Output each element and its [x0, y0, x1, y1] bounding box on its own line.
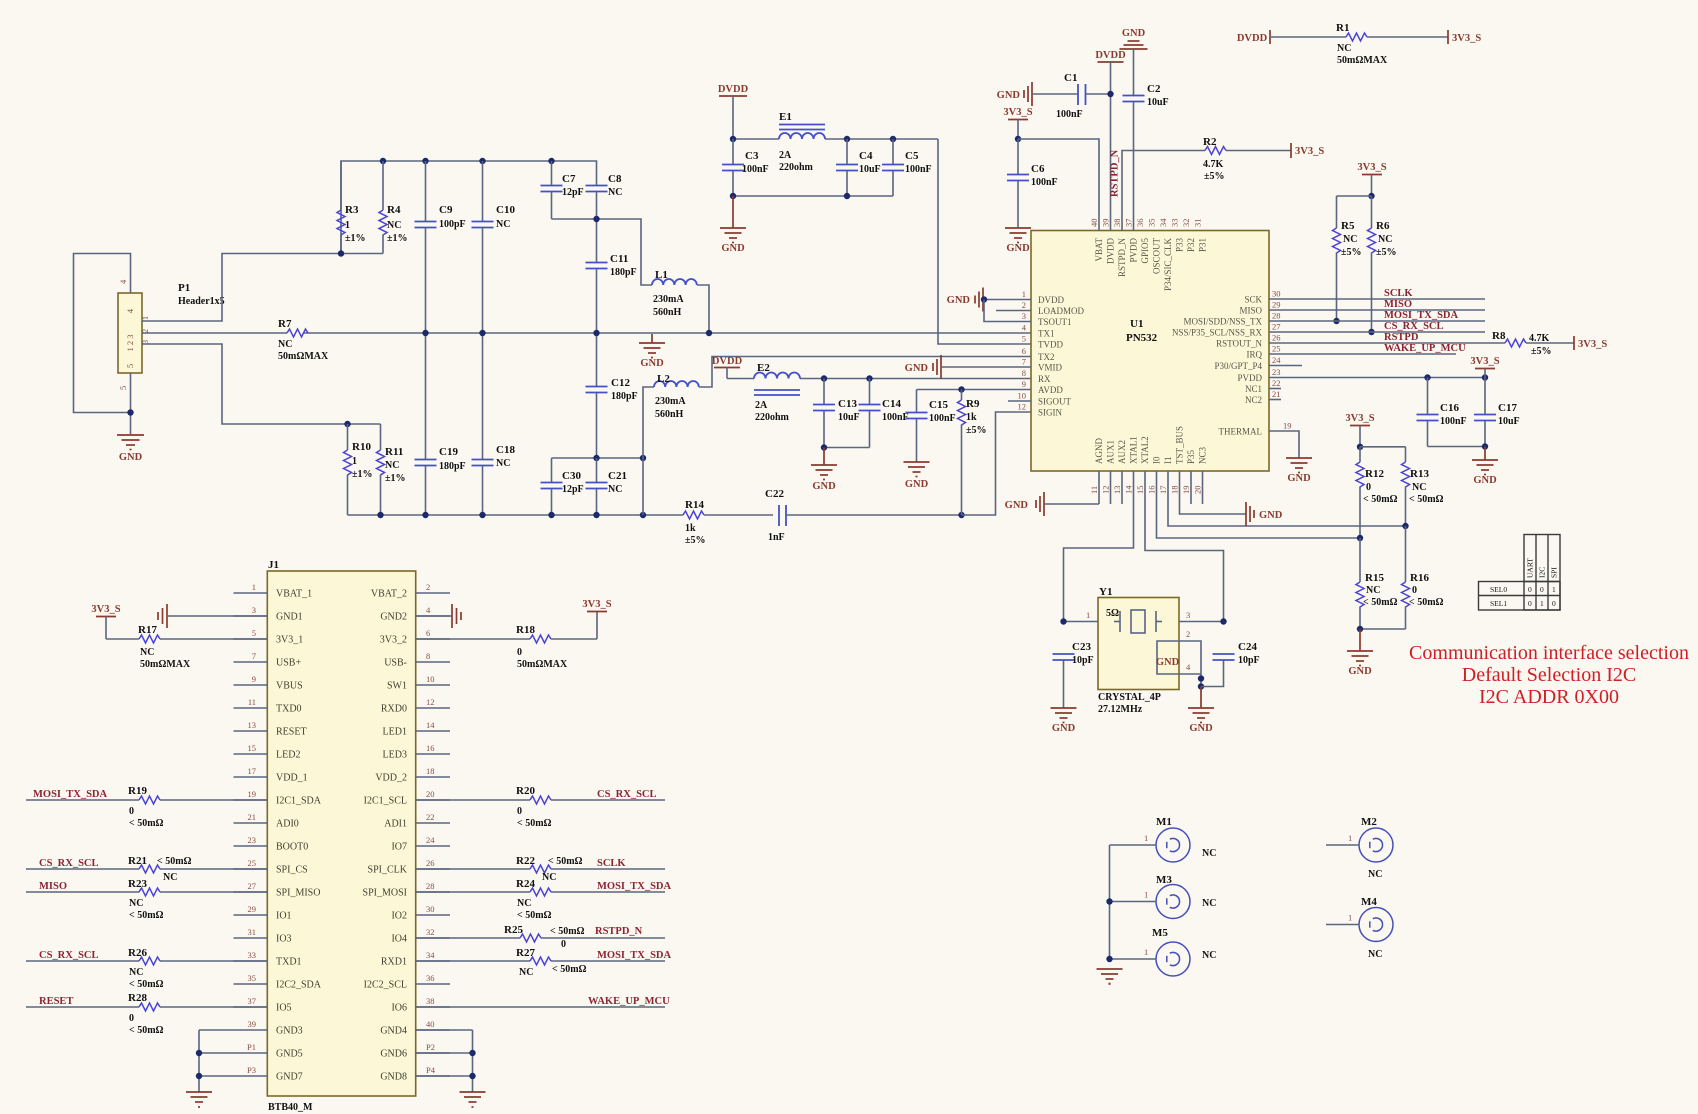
svg-text:13: 13	[1112, 486, 1122, 495]
svg-text:GPIO5: GPIO5	[1140, 238, 1150, 264]
svg-text:R6: R6	[1376, 220, 1390, 232]
mounting hole M4	[1326, 896, 1393, 960]
svg-text:RX: RX	[1038, 374, 1051, 384]
svg-text:±5%: ±5%	[685, 535, 706, 546]
capacitor C6	[1007, 139, 1058, 228]
svg-text:P30/GPT_P4: P30/GPT_P4	[1214, 361, 1262, 371]
svg-text:100pF: 100pF	[439, 219, 466, 230]
svg-text:560nH: 560nH	[653, 307, 682, 318]
svg-text:16: 16	[426, 743, 435, 753]
svg-text:12: 12	[426, 697, 435, 707]
svg-text:C24: C24	[1238, 641, 1257, 653]
svg-text:I2C ADDR 0X00: I2C ADDR 0X00	[1479, 686, 1619, 708]
net CS_RX_SCL left r33	[26, 950, 139, 961]
svg-text:C8: C8	[608, 173, 622, 185]
capacitor C9	[415, 161, 466, 459]
svg-text:GND: GND	[947, 295, 971, 306]
svg-text:PN532: PN532	[1126, 332, 1158, 344]
wire I1 row to R13 bottom	[1168, 471, 1409, 529]
resistor R17	[138, 624, 267, 670]
svg-text:MOSI_TX_SDA: MOSI_TX_SDA	[1384, 310, 1459, 321]
svg-text:50mΩMAX: 50mΩMAX	[1337, 55, 1388, 66]
resistor R8	[1492, 330, 1574, 357]
svg-text:SPI_MISO: SPI_MISO	[276, 888, 320, 899]
capacitor C4	[836, 139, 881, 196]
resistor R4	[379, 161, 408, 254]
svg-text:NC1: NC1	[1245, 384, 1262, 394]
svg-text:C12: C12	[611, 377, 630, 389]
resistor R18	[416, 624, 597, 670]
ground under Y1 pin4	[1188, 687, 1214, 735]
svg-text:39: 39	[248, 1019, 257, 1029]
svg-text:GND: GND	[1259, 510, 1283, 521]
svg-text:RESET: RESET	[39, 996, 73, 1007]
svg-text:C23: C23	[1072, 641, 1091, 653]
svg-text:L2: L2	[657, 373, 670, 385]
svg-text:15: 15	[248, 743, 257, 753]
svg-text:R3: R3	[345, 204, 359, 216]
svg-text:C3: C3	[745, 150, 759, 162]
svg-text:P1: P1	[178, 282, 190, 294]
svg-text:NC: NC	[1337, 43, 1351, 54]
U1 top pin numbers	[1089, 218, 1203, 227]
svg-text:180pF: 180pF	[611, 391, 638, 402]
ground under C3	[720, 196, 746, 254]
capacitor C21	[586, 458, 627, 515]
power 3V3_S at R2	[1291, 143, 1324, 158]
svg-text:DVDD: DVDD	[1106, 238, 1116, 264]
svg-text:RSTPD_N: RSTPD_N	[1110, 149, 1121, 197]
resistor R2	[1203, 136, 1291, 182]
svg-text:NC3: NC3	[1198, 446, 1208, 464]
svg-text:GND2: GND2	[380, 612, 407, 623]
svg-text:CS_RX_SCL: CS_RX_SCL	[39, 858, 99, 869]
svg-text:NC: NC	[1368, 949, 1382, 960]
svg-text:VBUS: VBUS	[276, 681, 303, 692]
svg-text:VDD_1: VDD_1	[276, 773, 308, 784]
svg-text:GND: GND	[905, 479, 929, 490]
svg-text:MOSI_TX_SDA: MOSI_TX_SDA	[597, 950, 672, 961]
svg-text:GND: GND	[1052, 723, 1076, 734]
svg-text:GND: GND	[1287, 473, 1311, 484]
IC U1 PN532	[1031, 231, 1269, 472]
wire P1 pin1 to R3/R4 bottom rail	[142, 254, 383, 322]
svg-text:28: 28	[426, 881, 435, 891]
svg-text:RXD0: RXD0	[381, 704, 407, 715]
svg-text:CS_RX_SCL: CS_RX_SCL	[39, 950, 99, 961]
svg-text:30: 30	[426, 904, 435, 914]
svg-text:38: 38	[426, 996, 435, 1006]
svg-text:35: 35	[248, 973, 257, 983]
svg-text:NC: NC	[1202, 950, 1216, 961]
svg-text:ADI0: ADI0	[276, 819, 299, 830]
ground-left symbol at C1	[997, 82, 1078, 106]
svg-text:10: 10	[426, 674, 435, 684]
svg-text:USB+: USB+	[276, 658, 301, 669]
svg-text:±5%: ±5%	[1341, 247, 1362, 258]
svg-text:AVDD: AVDD	[1038, 385, 1063, 395]
svg-text:7: 7	[252, 651, 256, 661]
svg-text:10uF: 10uF	[1147, 97, 1169, 108]
svg-text:22: 22	[1272, 378, 1281, 388]
svg-text:35: 35	[1147, 219, 1157, 228]
svg-text:RSTPD_N: RSTPD_N	[1117, 238, 1127, 278]
svg-text:< 50mΩ: < 50mΩ	[1363, 597, 1398, 608]
svg-text:Communication interface select: Communication interface selection	[1409, 642, 1689, 664]
svg-text:R13: R13	[1410, 468, 1429, 480]
svg-text:2A: 2A	[755, 400, 768, 411]
svg-text:NC: NC	[496, 458, 510, 469]
capacitor C14	[859, 379, 909, 448]
wire U1 pin1/pin3 tie	[981, 296, 1031, 321]
svg-text:I2C2_SCL: I2C2_SCL	[364, 980, 407, 991]
svg-text:R25: R25	[504, 924, 523, 936]
svg-text:USB-: USB-	[384, 658, 407, 669]
capacitor C8	[586, 173, 623, 262]
wire TVDD vertical to U1 pin5	[938, 139, 1031, 344]
power 3V3_S above R5/R6	[1337, 162, 1387, 199]
svg-text:23: 23	[248, 835, 257, 845]
svg-text:R22: R22	[516, 855, 535, 867]
svg-text:ADI1: ADI1	[384, 819, 407, 830]
svg-text:P34/SIC_CLK: P34/SIC_CLK	[1163, 238, 1173, 292]
svg-text:±5%: ±5%	[1376, 247, 1397, 258]
svg-text:< 50mΩ: < 50mΩ	[548, 856, 583, 867]
svg-text:< 50mΩ: < 50mΩ	[1409, 597, 1444, 608]
svg-text:36: 36	[1135, 219, 1145, 228]
capacitor C10	[472, 161, 516, 459]
svg-text:GND: GND	[640, 358, 664, 369]
wire C3/C4/C5 bottom rail	[730, 193, 893, 199]
svg-text:±1%: ±1%	[352, 469, 373, 480]
svg-text:1nF: 1nF	[768, 532, 785, 543]
capacitor C15	[906, 390, 956, 463]
wire J1 left ground rail	[196, 1030, 234, 1092]
ground under C13	[811, 448, 837, 493]
svg-text:MOSI_TX_SDA: MOSI_TX_SDA	[597, 881, 672, 892]
svg-text:NC: NC	[519, 967, 533, 978]
svg-text:UART: UART	[1526, 558, 1535, 578]
svg-text:1: 1	[1086, 610, 1090, 620]
inductor E1	[779, 111, 825, 173]
svg-text:DVDD: DVDD	[718, 84, 749, 95]
svg-text:J1: J1	[268, 559, 279, 571]
svg-text:GND5: GND5	[276, 1049, 303, 1060]
svg-text:16: 16	[1147, 486, 1157, 495]
capacitor C13	[813, 379, 860, 448]
svg-text:< 50mΩ: < 50mΩ	[517, 910, 552, 921]
svg-text:THERMAL: THERMAL	[1219, 427, 1263, 437]
svg-text:2: 2	[426, 582, 430, 592]
svg-text:180pF: 180pF	[610, 267, 637, 278]
svg-text:10uF: 10uF	[838, 412, 860, 423]
net MISO left r27	[26, 881, 139, 892]
svg-text:12pF: 12pF	[562, 187, 584, 198]
wire U1 bottom stubs P35/NC3	[1191, 471, 1203, 504]
svg-text:IO4: IO4	[391, 934, 407, 945]
svg-text:1: 1	[1144, 947, 1148, 957]
svg-text:TST_BUS: TST_BUS	[1175, 426, 1185, 464]
svg-text:1: 1	[1348, 833, 1352, 843]
wire CS row	[1269, 321, 1485, 332]
svg-text:I2C1_SCL: I2C1_SCL	[364, 796, 407, 807]
svg-text:VBAT_1: VBAT_1	[276, 589, 312, 600]
resistor R24	[416, 878, 665, 921]
inductor L1	[652, 269, 697, 318]
wire C13/C14 bottom join	[821, 444, 870, 450]
svg-text:C30: C30	[562, 470, 581, 482]
wire M1/M3/M5 tie	[1106, 845, 1112, 962]
capacitor C16	[1417, 378, 1467, 447]
svg-text:3V3_S: 3V3_S	[1470, 356, 1499, 367]
svg-text:R8: R8	[1492, 330, 1506, 342]
svg-text:R11: R11	[385, 446, 403, 458]
inductor E2	[754, 362, 800, 423]
svg-text:P1: P1	[247, 1042, 256, 1052]
svg-text:IO7: IO7	[391, 842, 407, 853]
svg-text:1: 1	[345, 220, 350, 231]
svg-text:R1: R1	[1336, 22, 1349, 34]
svg-text:C9: C9	[439, 204, 453, 216]
svg-text:19: 19	[1283, 421, 1292, 431]
svg-text:Y1: Y1	[1099, 586, 1112, 598]
svg-text:27: 27	[1272, 322, 1281, 332]
svg-text:21: 21	[248, 812, 257, 822]
svg-text:3: 3	[1186, 610, 1190, 620]
ground under P1	[117, 435, 144, 463]
svg-text:NC: NC	[140, 647, 154, 658]
svg-text:I1: I1	[1163, 457, 1173, 465]
svg-text:39: 39	[1101, 219, 1111, 228]
svg-text:AGND: AGND	[1094, 438, 1104, 464]
svg-text:1: 1	[352, 456, 357, 467]
svg-text:MOSI_TX_SDA: MOSI_TX_SDA	[33, 789, 108, 800]
U1 right pin numbers	[1272, 289, 1292, 431]
svg-text:SEL0: SEL0	[1490, 585, 1507, 594]
resistor R3	[337, 161, 366, 254]
svg-text:GND: GND	[1473, 475, 1497, 486]
svg-text:13: 13	[248, 720, 257, 730]
svg-text:SIGOUT: SIGOUT	[1038, 397, 1072, 407]
svg-text:< 50mΩ: < 50mΩ	[517, 818, 552, 829]
svg-text:DVDD: DVDD	[1237, 33, 1268, 44]
svg-text:C1: C1	[1064, 72, 1077, 84]
svg-text:LED3: LED3	[383, 750, 407, 761]
svg-text:PVDD: PVDD	[1237, 373, 1262, 383]
svg-text:3V3_S: 3V3_S	[1452, 33, 1481, 44]
svg-text:TX2: TX2	[1038, 352, 1055, 362]
svg-text:3: 3	[1022, 311, 1026, 321]
svg-text:8: 8	[426, 651, 430, 661]
wire NC1/NC2 stubs	[1269, 389, 1281, 400]
svg-text:CS_RX_SCL: CS_RX_SCL	[597, 789, 657, 800]
svg-text:37: 37	[1124, 219, 1134, 228]
svg-text:9: 9	[252, 674, 256, 684]
resistor R5	[1333, 196, 1362, 324]
svg-text:VMID: VMID	[1038, 363, 1062, 373]
power 3V3_S above R12/R13	[1345, 413, 1405, 450]
resistor R21	[128, 855, 267, 883]
svg-text:IRQ: IRQ	[1247, 350, 1263, 360]
wire I0 row to R12 bottom	[1157, 471, 1364, 541]
wire P30 stub	[1269, 365, 1302, 367]
svg-text:TXD0: TXD0	[276, 704, 302, 715]
wire C16/C17 bottom rail	[1428, 443, 1489, 449]
svg-text:±5%: ±5%	[966, 425, 987, 436]
capacitor C30	[541, 458, 584, 515]
svg-text:C6: C6	[1031, 163, 1045, 175]
svg-text:0: 0	[129, 1013, 134, 1024]
wire top bus	[341, 161, 597, 254]
svg-text:VBAT_2: VBAT_2	[371, 589, 407, 600]
svg-text:R14: R14	[685, 499, 704, 511]
ground under C6	[1005, 228, 1031, 254]
svg-text:I0: I0	[1152, 456, 1162, 464]
svg-text:P35: P35	[1186, 449, 1196, 464]
svg-text:100nF: 100nF	[1056, 109, 1083, 120]
svg-text:R16: R16	[1410, 572, 1429, 584]
svg-text:M2: M2	[1361, 816, 1377, 828]
svg-text:33: 33	[248, 950, 257, 960]
U1 bottom pin numbers	[1089, 485, 1203, 494]
svg-text:P4: P4	[426, 1065, 436, 1075]
U1 left pin names	[1038, 295, 1084, 418]
svg-text:C10: C10	[496, 204, 515, 216]
ground under C15	[904, 462, 930, 490]
power 3V3_S above C17	[1470, 356, 1499, 378]
svg-text:AUX2: AUX2	[1117, 440, 1127, 464]
svg-text:18: 18	[426, 766, 435, 776]
resistor R14	[683, 499, 773, 546]
svg-text:GND: GND	[119, 452, 143, 463]
svg-text:LED2: LED2	[276, 750, 300, 761]
svg-text:3V3_S: 3V3_S	[1357, 162, 1386, 173]
svg-text:NC: NC	[129, 898, 143, 909]
svg-text:±1%: ±1%	[345, 233, 366, 244]
ground-side at J1 GND1	[158, 604, 267, 628]
crystal Y1	[1098, 586, 1179, 715]
J1 pin stubs	[234, 593, 451, 1076]
svg-text:< 50mΩ: < 50mΩ	[1409, 494, 1444, 505]
table interface selection	[1479, 535, 1561, 611]
svg-text:NC: NC	[542, 872, 556, 883]
svg-text:GND: GND	[1348, 666, 1372, 677]
svg-text:GND: GND	[812, 481, 836, 492]
svg-text:0: 0	[1412, 585, 1417, 596]
resistor R15	[1356, 538, 1398, 629]
svg-text:NC: NC	[1343, 234, 1357, 245]
svg-text:25: 25	[1272, 344, 1281, 354]
svg-text:SPI_MOSI: SPI_MOSI	[363, 888, 407, 899]
resistor R7	[278, 318, 329, 362]
svg-text:PVDD: PVDD	[1129, 238, 1139, 263]
svg-text:< 50mΩ: < 50mΩ	[550, 926, 585, 937]
svg-text:100nF: 100nF	[929, 413, 956, 424]
svg-text:±1%: ±1%	[385, 473, 406, 484]
svg-text:0: 0	[129, 806, 134, 817]
svg-text:MISO: MISO	[1384, 299, 1412, 310]
svg-text:±5%: ±5%	[1204, 171, 1225, 182]
wire L1 right down to TX1	[697, 285, 712, 336]
power 3V3_S at R17	[91, 604, 139, 639]
svg-text:3V3_2: 3V3_2	[380, 635, 407, 646]
wire Y1 pin2/pin4 gnd loop	[1156, 629, 1204, 690]
wire U1 bottom stubs 12/13	[1111, 471, 1123, 504]
svg-text:R12: R12	[1365, 468, 1384, 480]
resistor R22	[416, 855, 665, 883]
svg-text:AUX1: AUX1	[1106, 440, 1116, 464]
svg-text:12pF: 12pF	[562, 484, 584, 495]
ground stub on TX1 wire	[639, 334, 665, 369]
svg-text:< 50mΩ: < 50mΩ	[157, 856, 192, 867]
svg-text:GND: GND	[1122, 28, 1146, 39]
svg-text:GND: GND	[1189, 723, 1213, 734]
svg-text:< 50mΩ: < 50mΩ	[129, 818, 164, 829]
svg-text:1: 1	[1552, 585, 1556, 594]
svg-text:0: 0	[1528, 585, 1532, 594]
svg-text:NC: NC	[496, 219, 510, 230]
svg-text:IO5: IO5	[276, 1003, 292, 1014]
svg-text:1 2 3: 1 2 3	[125, 335, 135, 352]
ground under M holes	[1097, 969, 1123, 984]
svg-text:R21: R21	[128, 855, 147, 867]
net MOSI_TX_SDA right r34	[597, 950, 672, 961]
wire MISO row	[1269, 299, 1485, 310]
wire bottom bus	[348, 512, 684, 518]
svg-text:Default Selection I2C: Default Selection I2C	[1462, 664, 1636, 686]
svg-text:U1: U1	[1130, 318, 1143, 330]
svg-text:100nF: 100nF	[905, 164, 932, 175]
svg-text:CS_RX_SCL: CS_RX_SCL	[1384, 321, 1444, 332]
net WAKE_UP_MCU right r38	[416, 996, 670, 1007]
svg-text:SCLK: SCLK	[597, 858, 626, 869]
svg-text:NC2: NC2	[1245, 395, 1262, 405]
svg-text:25: 25	[248, 858, 257, 868]
svg-text:C7: C7	[562, 173, 576, 185]
svg-text:R20: R20	[516, 785, 535, 797]
svg-text:C13: C13	[838, 398, 857, 410]
wire L2 left branch	[643, 387, 654, 515]
svg-text:NC: NC	[385, 460, 399, 471]
power DVDD mid	[712, 356, 743, 379]
svg-text:NC: NC	[1202, 848, 1216, 859]
resistor R16	[1402, 526, 1444, 629]
net RSTPD_N vertical label	[1110, 149, 1121, 197]
svg-text:24: 24	[426, 835, 435, 845]
svg-text:R23: R23	[128, 878, 147, 890]
svg-text:3V3_S: 3V3_S	[1295, 146, 1324, 157]
wire RX row rail	[727, 375, 1031, 381]
svg-text:RSTPD_N: RSTPD_N	[595, 926, 643, 937]
svg-text:5Ω: 5Ω	[1106, 608, 1119, 619]
svg-text:MISO: MISO	[39, 881, 67, 892]
svg-text:10pF: 10pF	[1238, 655, 1260, 666]
capacitor C11	[586, 253, 637, 386]
svg-text:19: 19	[1181, 486, 1191, 495]
svg-text:18: 18	[1170, 486, 1180, 495]
svg-text:C21: C21	[608, 470, 627, 482]
svg-text:5: 5	[118, 386, 128, 390]
ground under R15	[1347, 629, 1373, 677]
svg-text:10: 10	[1018, 391, 1027, 401]
svg-text:R17: R17	[138, 624, 157, 636]
svg-text:TX1: TX1	[1038, 329, 1055, 339]
svg-text:GND7: GND7	[276, 1072, 303, 1083]
net MOSI_TX_SDA right r28	[597, 881, 672, 892]
svg-text:M4: M4	[1361, 896, 1377, 908]
U1 top pin names	[1094, 238, 1208, 292]
svg-text:37: 37	[248, 996, 257, 1006]
